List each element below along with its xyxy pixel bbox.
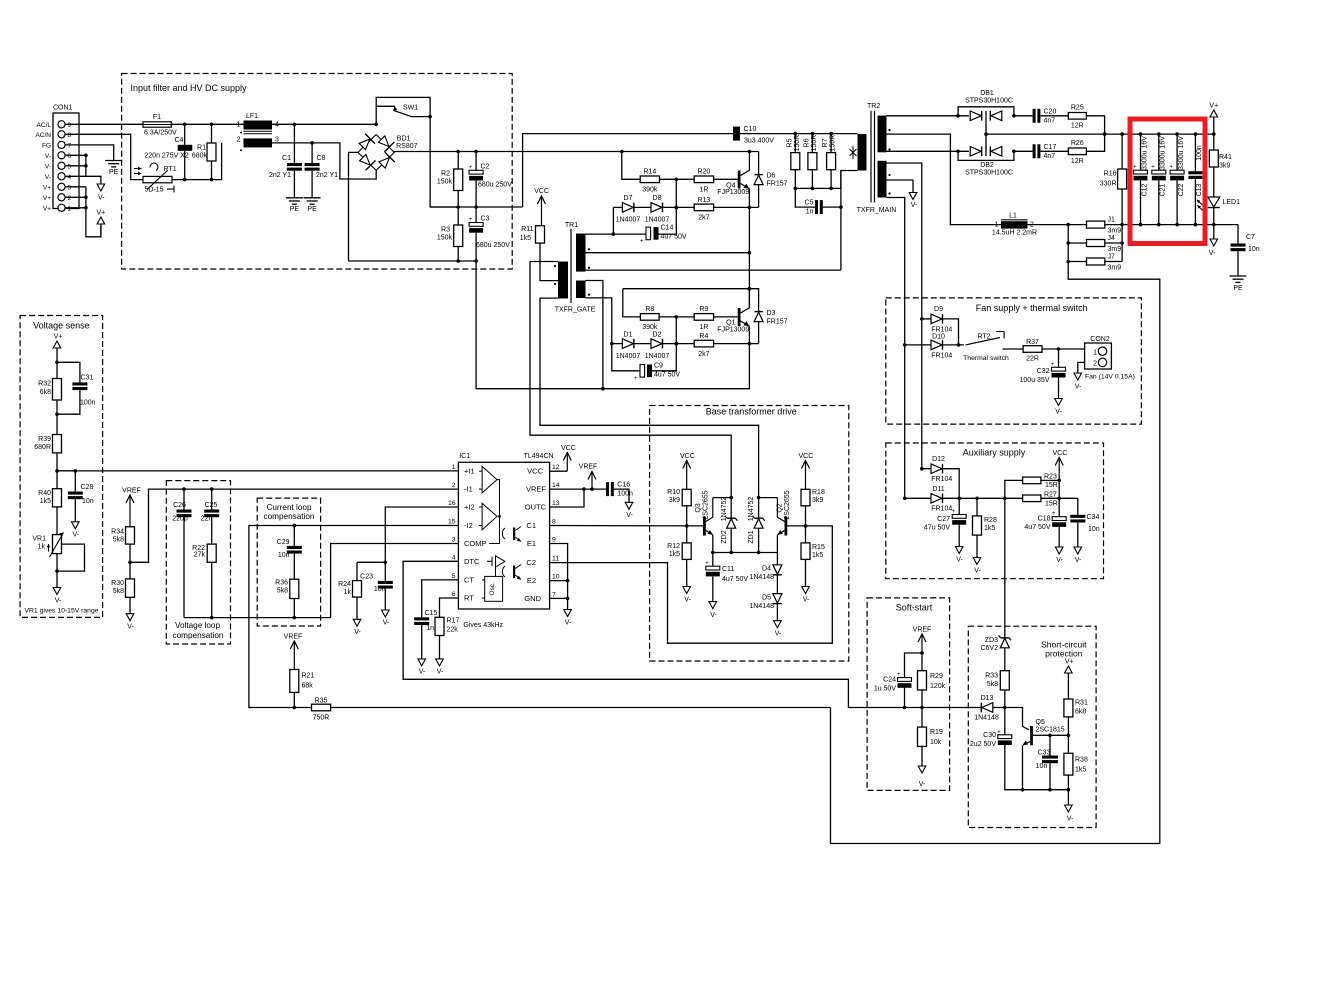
svg-text:2: 2 xyxy=(68,195,72,202)
capacitor C31 xyxy=(57,362,80,382)
capacitor C27 xyxy=(958,498,960,514)
svg-text:R20: R20 xyxy=(697,169,710,176)
svg-text:V-: V- xyxy=(1055,409,1062,416)
svg-text:D10: D10 xyxy=(932,334,945,341)
svg-text:-I1: -I1 xyxy=(464,485,473,494)
capacitor C15 xyxy=(414,617,429,620)
capacitor C30 xyxy=(1004,708,1006,735)
svg-text:4n7: 4n7 xyxy=(1044,118,1056,125)
svg-text:C3: C3 xyxy=(481,216,490,223)
wire snubber bottom row xyxy=(795,187,841,189)
svg-text:ZD3: ZD3 xyxy=(985,637,998,644)
svg-text:150k: 150k xyxy=(437,179,453,186)
power V- under C11 xyxy=(712,601,714,602)
svg-text:+: + xyxy=(705,561,709,567)
svg-text:1k5: 1k5 xyxy=(40,498,51,505)
wire midpoint rail xyxy=(430,206,522,208)
svg-text:12R: 12R xyxy=(1071,123,1084,130)
svg-text:8: 8 xyxy=(68,132,72,139)
wire pin 15 -I2 to R21/R35 node xyxy=(249,526,459,708)
bridge rectifier BD1 RS807 xyxy=(358,135,394,171)
svg-text:D8: D8 xyxy=(653,195,662,202)
svg-text:1N4148: 1N4148 xyxy=(749,603,774,610)
svg-text:C25: C25 xyxy=(205,502,218,509)
svg-text:TR1: TR1 xyxy=(565,222,578,229)
svg-text:AC/N: AC/N xyxy=(35,132,51,139)
svg-text:D9: D9 xyxy=(934,306,943,313)
box Base transformer drive xyxy=(650,406,849,662)
capacitor C21 xyxy=(1158,134,1160,170)
svg-text:ZD1: ZD1 xyxy=(748,530,755,543)
svg-text:R39: R39 xyxy=(38,436,51,443)
svg-text:+: + xyxy=(897,672,901,678)
svg-text:7: 7 xyxy=(68,142,72,149)
resistor R18 xyxy=(801,489,810,506)
svg-text:+: + xyxy=(469,217,473,223)
resistor R21 xyxy=(290,670,299,693)
capacitor C18 xyxy=(1058,480,1060,516)
svg-text:R17: R17 xyxy=(447,618,460,625)
svg-text:2SC1815: 2SC1815 xyxy=(1036,727,1065,734)
svg-text:R19: R19 xyxy=(930,729,943,736)
switch SW1 (voltage selector) xyxy=(376,97,430,124)
power V- under R24 xyxy=(356,597,358,619)
wire switching column to TR1 row xyxy=(840,171,842,271)
power V- under D5 xyxy=(776,620,778,621)
svg-text:1N4148: 1N4148 xyxy=(749,574,774,581)
svg-text:1k5: 1k5 xyxy=(812,552,823,559)
svg-text:R1: R1 xyxy=(197,145,206,152)
svg-text:RT1: RT1 xyxy=(164,166,177,173)
svg-text:1R: 1R xyxy=(699,324,708,331)
capacitor C16 xyxy=(606,482,609,496)
svg-text:22n: 22n xyxy=(201,516,213,523)
svg-text:STPS30H100C: STPS30H100C xyxy=(965,170,1013,177)
wire pin 2 -I1 xyxy=(130,489,458,562)
resistor R34 xyxy=(126,527,135,544)
svg-text:14.5uH 2.2mR: 14.5uH 2.2mR xyxy=(992,230,1037,237)
svg-text:V-: V- xyxy=(626,512,633,519)
shunt J4 xyxy=(1087,240,1105,247)
capacitor C12 xyxy=(1140,134,1142,170)
svg-text:68k: 68k xyxy=(302,683,314,690)
power V- under C32 xyxy=(1058,398,1060,399)
svg-text:Q1: Q1 xyxy=(726,320,735,327)
resistor R37 xyxy=(1023,346,1042,353)
resistor R20 xyxy=(694,176,713,183)
wire R8 branch from Q1 collector node xyxy=(623,289,759,312)
svg-text:1N4752: 1N4752 xyxy=(748,497,755,522)
diode D1 xyxy=(612,343,623,345)
svg-text:R15: R15 xyxy=(812,544,825,551)
svg-text:27k: 27k xyxy=(194,552,206,559)
svg-text:15R: 15R xyxy=(1045,482,1058,489)
svg-text:TXFR_GATE: TXFR_GATE xyxy=(555,307,596,314)
svg-text:R26: R26 xyxy=(1071,140,1084,147)
svg-text:VCC: VCC xyxy=(561,445,576,452)
resistor R3 xyxy=(454,225,463,247)
wire R4 to Q1 emitter node xyxy=(714,343,759,345)
box Fan supply + thermal switch xyxy=(886,298,1142,424)
capacitor C28 xyxy=(57,471,75,492)
capacitor C22 xyxy=(1176,134,1178,170)
wire pin 5 CT to C15 xyxy=(422,580,459,617)
resistor R6 xyxy=(808,153,817,170)
svg-text:DB1: DB1 xyxy=(980,90,994,97)
svg-text:3k9: 3k9 xyxy=(812,497,823,504)
svg-text:VR1: VR1 xyxy=(32,536,46,543)
wire TR2 sec2 centre tap to V- xyxy=(887,179,914,181)
svg-text:100n: 100n xyxy=(80,400,96,407)
wire pin 13 OUTC tied to VREF xyxy=(550,489,584,507)
svg-text:10n: 10n xyxy=(1036,763,1048,770)
svg-text:Base transformer drive: Base transformer drive xyxy=(706,407,797,417)
svg-text:LED1: LED1 xyxy=(1223,199,1241,206)
svg-text:VREF: VREF xyxy=(284,634,303,641)
svg-text:6: 6 xyxy=(452,591,456,598)
svg-text:C24: C24 xyxy=(883,677,896,684)
svg-text:D1: D1 xyxy=(624,332,633,339)
svg-text:2n2 Y1: 2n2 Y1 xyxy=(316,172,338,179)
svg-text:5D-15: 5D-15 xyxy=(145,187,164,194)
svg-text:compensation: compensation xyxy=(264,512,315,521)
IC1 internal comparator 2 xyxy=(479,506,482,508)
svg-text:ZD2: ZD2 xyxy=(721,530,728,543)
box Voltage loop compensation xyxy=(166,481,230,644)
resistor R31 xyxy=(1064,699,1073,717)
svg-text:C33: C33 xyxy=(1038,750,1051,757)
svg-text:R8: R8 xyxy=(645,306,654,313)
svg-text:R4: R4 xyxy=(699,333,708,340)
svg-text:12: 12 xyxy=(552,464,560,471)
wire R20 to Q4 base xyxy=(714,178,738,180)
transistor Q4 FJP13009 xyxy=(738,171,741,189)
svg-text:16: 16 xyxy=(448,500,456,507)
wire HV+ rail xyxy=(394,151,758,153)
svg-text:C2: C2 xyxy=(481,164,490,171)
resistor R24 xyxy=(357,561,385,563)
wire L1 to shunts xyxy=(1028,224,1069,226)
svg-text:R18: R18 xyxy=(812,489,825,496)
svg-text:3m9: 3m9 xyxy=(1108,246,1122,253)
svg-text:1R: 1R xyxy=(699,187,708,194)
svg-text:C5: C5 xyxy=(805,200,814,207)
resistor R15 xyxy=(801,543,810,560)
transistor Q5 2SC1815 xyxy=(1030,726,1033,745)
svg-text:3300u 16V: 3300u 16V xyxy=(1178,136,1185,170)
svg-text:6.3A/250V: 6.3A/250V xyxy=(144,130,177,137)
svg-text:PE: PE xyxy=(290,206,300,213)
wire E1 E2 GND to V- xyxy=(550,544,568,609)
capacitor C2 xyxy=(469,170,483,174)
svg-text:+: + xyxy=(1052,511,1056,517)
wire HV- rail down and right to Q1 emitter xyxy=(476,261,749,389)
zener ZD1 1N4752 xyxy=(754,517,762,519)
wire R23/R27 to VCC xyxy=(1041,479,1059,481)
svg-text:VCC: VCC xyxy=(534,188,549,195)
ground PE under C1 xyxy=(286,197,303,199)
svg-text:4u7 50V: 4u7 50V xyxy=(654,372,680,379)
diode D13 1N4148 xyxy=(922,707,981,709)
svg-text:3m9: 3m9 xyxy=(1108,265,1122,272)
shunt J1 xyxy=(1087,221,1105,228)
svg-text:2: 2 xyxy=(452,482,456,489)
svg-text:Gives 43kHz: Gives 43kHz xyxy=(463,622,503,629)
wire D2 to R4 xyxy=(663,343,695,345)
diode D9 FR104 xyxy=(922,318,931,320)
svg-text:VR1 gives 10-15V range: VR1 gives 10-15V range xyxy=(24,608,98,615)
svg-text:compensation: compensation xyxy=(173,631,224,640)
svg-text:C21: C21 xyxy=(1160,183,1167,196)
resistor R41 xyxy=(1209,150,1218,167)
resistor R27 xyxy=(1023,495,1041,502)
wire Q1 emitter xyxy=(748,326,750,343)
svg-text:3m9: 3m9 xyxy=(1108,228,1122,235)
svg-text:1: 1 xyxy=(68,205,72,212)
svg-text:R2: R2 xyxy=(441,171,450,178)
svg-text:3k9: 3k9 xyxy=(669,497,680,504)
diode D4 1N4148 xyxy=(776,553,778,565)
capacitor C11 xyxy=(712,553,714,567)
wire D7 anode branch xyxy=(612,207,614,234)
svg-text:V-: V- xyxy=(55,598,62,605)
svg-text:C32: C32 xyxy=(1037,368,1050,375)
svg-text:E2: E2 xyxy=(527,576,536,585)
wire emitter row xyxy=(713,552,778,554)
svg-text:4u7 50V: 4u7 50V xyxy=(1024,524,1050,531)
wire shunt left bus / current sense xyxy=(831,225,1160,844)
box Input filter and HV DC supply xyxy=(122,74,513,270)
svg-text:D2: D2 xyxy=(653,332,662,339)
wire V+ pins xyxy=(65,186,86,188)
svg-text:2k7: 2k7 xyxy=(698,351,709,358)
wire R11 to TR1 mid tap xyxy=(540,243,558,281)
highlight red box (output capacitors) xyxy=(1130,119,1205,244)
svg-text:V-: V- xyxy=(911,202,918,209)
svg-text:R31: R31 xyxy=(1075,700,1088,707)
svg-text:PE: PE xyxy=(307,206,317,213)
svg-text:LF1: LF1 xyxy=(246,113,258,120)
svg-text:V-: V- xyxy=(419,669,426,676)
resistor R8 xyxy=(640,314,659,321)
thermistor RT1 xyxy=(143,176,172,182)
svg-text:V+: V+ xyxy=(97,210,106,217)
svg-text:1: 1 xyxy=(237,122,241,129)
power V+ output arrow xyxy=(1213,117,1215,134)
svg-text:680R: 680R xyxy=(34,444,51,451)
shunt J7 xyxy=(1087,258,1105,265)
svg-text:VREF: VREF xyxy=(913,627,932,634)
fuse F1 xyxy=(143,122,171,127)
wire RT1 row xyxy=(172,143,222,180)
svg-text:7: 7 xyxy=(552,591,556,598)
svg-text:4: 4 xyxy=(68,174,72,181)
connector CON1 xyxy=(53,113,79,209)
wire LF1 pin3 to bridge xyxy=(272,143,376,179)
svg-text:D11: D11 xyxy=(932,486,944,493)
svg-text:1N4007: 1N4007 xyxy=(616,353,641,360)
svg-text:R12: R12 xyxy=(667,543,680,550)
svg-text:V-: V- xyxy=(127,624,134,631)
svg-text:R14: R14 xyxy=(643,169,656,176)
diode D10 FR104 xyxy=(905,344,931,346)
svg-text:C18: C18 xyxy=(1038,516,1051,523)
svg-text:C8: C8 xyxy=(317,155,326,162)
svg-text:R7: R7 xyxy=(822,138,829,147)
svg-text:J7: J7 xyxy=(1108,254,1116,261)
power V- under E1/E2/GND xyxy=(567,609,569,610)
capacitor C23 xyxy=(384,562,386,581)
wire VREF node xyxy=(921,653,923,671)
svg-text:L1: L1 xyxy=(1009,213,1017,220)
wire AC/L line xyxy=(65,123,143,125)
svg-text:FR157: FR157 xyxy=(767,319,788,326)
svg-text:R28: R28 xyxy=(984,517,997,524)
svg-text:22R: 22R xyxy=(1026,356,1039,363)
capacitor C25 xyxy=(211,489,213,509)
svg-text:Input filter and HV DC supply: Input filter and HV DC supply xyxy=(131,83,248,93)
svg-text:FR104: FR104 xyxy=(931,327,952,334)
svg-text:DB2: DB2 xyxy=(980,162,994,169)
wire pin 11 C2 to base drive xyxy=(550,526,833,643)
capacitor C33 xyxy=(1049,735,1051,755)
svg-text:V-: V- xyxy=(437,669,444,676)
wire bridge left corner to HV- rail xyxy=(349,152,358,261)
IC1 internal oscillator xyxy=(485,576,503,601)
svg-text:RS807: RS807 xyxy=(396,143,418,150)
svg-text:CT: CT xyxy=(464,575,474,584)
power V+ (up arrow) xyxy=(100,224,102,237)
svg-text:2SC2655: 2SC2655 xyxy=(703,490,710,519)
svg-text:R11: R11 xyxy=(521,226,533,233)
ground PE under C8 xyxy=(304,197,321,199)
wire D13 node to Q5 base xyxy=(1005,708,1029,730)
ground PE (chassis) xyxy=(105,160,122,162)
svg-text:FR104: FR104 xyxy=(931,476,952,483)
svg-text:C16: C16 xyxy=(617,482,630,489)
svg-text:PE: PE xyxy=(109,169,119,176)
svg-text:D7: D7 xyxy=(624,195,633,202)
svg-text:V-: V- xyxy=(1075,384,1082,391)
power V- under VR1 xyxy=(56,587,58,588)
svg-text:4: 4 xyxy=(452,554,456,561)
wire pin 14 VREF xyxy=(550,488,606,490)
svg-text:V+: V+ xyxy=(54,334,63,341)
svg-text:5k8: 5k8 xyxy=(113,537,124,544)
zener ZD2 1N4752 xyxy=(727,517,735,519)
resistor R40 xyxy=(53,489,62,507)
svg-text:6k8: 6k8 xyxy=(1075,709,1086,716)
svg-text:V+: V+ xyxy=(1209,103,1218,110)
capacitor C7 xyxy=(1237,225,1239,244)
wire D7-D8 xyxy=(634,206,651,208)
power V- under C23 xyxy=(384,589,386,610)
svg-text:D5: D5 xyxy=(762,595,771,602)
resistor R30 xyxy=(126,579,135,597)
svg-text:1N4752: 1N4752 xyxy=(721,497,728,522)
svg-text:R3: R3 xyxy=(441,227,450,234)
svg-text:C20: C20 xyxy=(1044,109,1057,116)
svg-text:-I2: -I2 xyxy=(464,521,473,530)
svg-text:V+: V+ xyxy=(1065,659,1074,666)
svg-text:V+: V+ xyxy=(43,184,51,191)
svg-text:3u3 400V: 3u3 400V xyxy=(744,138,774,145)
svg-text:220n 275V X2: 220n 275V X2 xyxy=(144,153,188,160)
wire Q3 collector to ZD2 xyxy=(713,497,731,499)
svg-text:1k5: 1k5 xyxy=(520,235,531,242)
diode D6 FR157 xyxy=(758,152,760,175)
transistor Q1 FJP13009 xyxy=(738,308,741,326)
svg-text:R23: R23 xyxy=(1044,474,1057,481)
svg-text:C27: C27 xyxy=(937,516,950,523)
svg-text:C12: C12 xyxy=(1141,183,1148,196)
svg-text:150R: 150R xyxy=(794,135,801,152)
svg-text:Voltage loop: Voltage loop xyxy=(175,621,221,630)
wire pin 4 DTC to soft-start xyxy=(403,561,922,707)
svg-text:V-: V- xyxy=(45,174,51,181)
svg-text:100n: 100n xyxy=(1196,145,1203,161)
svg-text:9: 9 xyxy=(552,537,556,544)
box Current loop compensation xyxy=(257,498,320,626)
svg-text:VREF: VREF xyxy=(122,488,141,495)
svg-text:R33: R33 xyxy=(985,673,998,680)
svg-text:V-: V- xyxy=(710,612,717,619)
diode D11 FR104 xyxy=(903,497,907,501)
wire TR2 sec1 centre tap to L1 xyxy=(887,134,1003,225)
svg-text:47u 50V: 47u 50V xyxy=(924,525,950,532)
wire R37 to CON2 xyxy=(1042,348,1085,350)
capacitor C5 xyxy=(795,188,815,207)
resistor R9 xyxy=(694,314,713,321)
wire TR2 sec1 top to DB1 xyxy=(887,115,969,117)
svg-text:FJP13009: FJP13009 xyxy=(717,189,749,196)
IC U1 TL494CN xyxy=(458,462,549,609)
svg-text:STPS30H100C: STPS30H100C xyxy=(965,98,1013,105)
svg-text:TXFR_MAIN: TXFR_MAIN xyxy=(857,207,897,214)
svg-text:Soft-start: Soft-start xyxy=(896,603,933,613)
capacitor C24 xyxy=(905,653,923,678)
svg-text:5k8: 5k8 xyxy=(113,588,124,595)
svg-text:1: 1 xyxy=(1093,350,1097,357)
svg-text:RT: RT xyxy=(464,594,474,603)
svg-text:14: 14 xyxy=(552,482,560,489)
svg-text:V-: V- xyxy=(72,532,79,539)
wire ZD1 to Q2 collector xyxy=(759,497,778,499)
svg-text:1k: 1k xyxy=(38,544,46,551)
svg-text:Q5: Q5 xyxy=(1036,719,1045,726)
wire C14 right to D8/R13 node xyxy=(659,179,677,234)
svg-text:C26: C26 xyxy=(173,502,186,509)
diode D3 FR157 xyxy=(754,311,762,313)
power V- under C34 xyxy=(1077,546,1079,547)
resistor R17 xyxy=(435,617,444,635)
svg-text:1: 1 xyxy=(452,464,456,471)
svg-text:C10: C10 xyxy=(744,126,757,133)
svg-text:6: 6 xyxy=(68,153,72,160)
svg-text:VCC: VCC xyxy=(527,467,543,476)
wire R34/R30 tap xyxy=(129,544,131,579)
diode D5 1N4148 xyxy=(776,575,778,594)
svg-text:10n: 10n xyxy=(278,552,290,559)
svg-text:10n: 10n xyxy=(82,498,94,505)
svg-text:15R: 15R xyxy=(1045,501,1058,508)
svg-text:3: 3 xyxy=(452,537,456,544)
svg-text:R9: R9 xyxy=(699,306,708,313)
svg-text:C6V2: C6V2 xyxy=(980,645,998,652)
resistor R16 xyxy=(1118,169,1127,189)
svg-text:+I1: +I1 xyxy=(464,467,475,476)
resistor R33 xyxy=(1000,671,1009,690)
